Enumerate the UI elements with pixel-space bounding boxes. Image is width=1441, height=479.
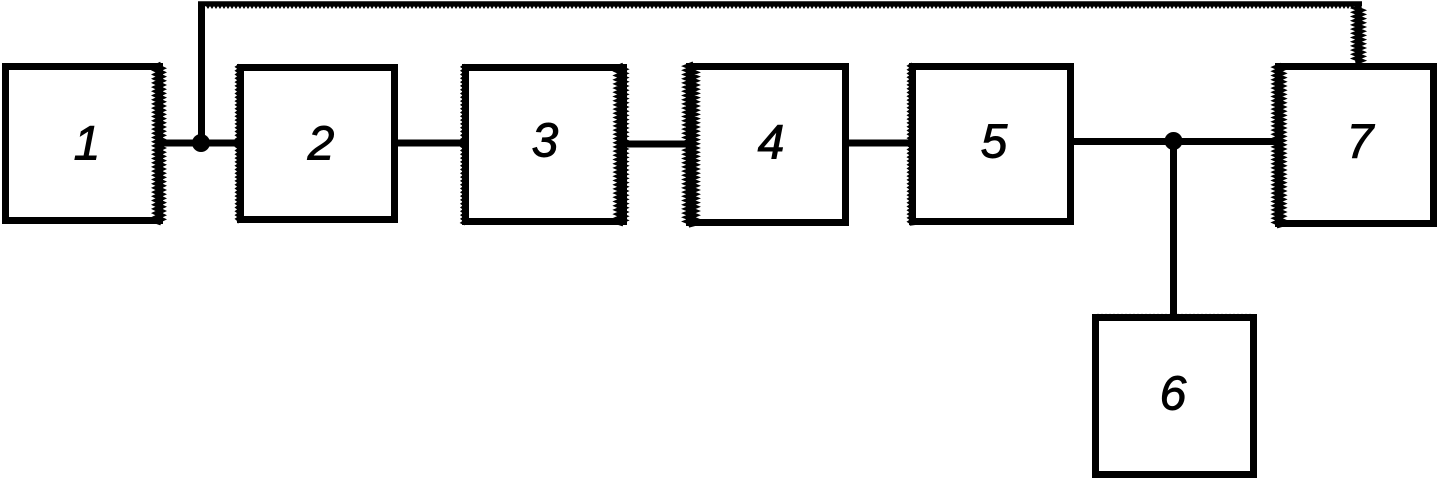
node B junction dot [1165, 132, 1183, 150]
wire: block 5 to node B [1071, 138, 1175, 145]
svg-text:5: 5 [981, 116, 1008, 169]
wire: node A to block 2 input [201, 140, 240, 147]
feedback wire: horizontal across top [198, 1, 1362, 6]
block 7 (box 7) [1277, 65, 1434, 226]
svg-text:6: 6 [1160, 368, 1187, 421]
wire: block 2 to block 3 [395, 140, 465, 147]
wire: block 4 to block 5 [846, 140, 912, 147]
wire: block 1 output to node A [160, 140, 204, 147]
wire: node B to block 7 input [1173, 138, 1278, 145]
svg-text:3: 3 [532, 115, 559, 168]
svg-text:4: 4 [758, 117, 785, 170]
feedback wire: vertical from node A up [198, 4, 205, 143]
block 3 (box 3) [463, 65, 624, 224]
svg-text:2: 2 [307, 118, 335, 171]
wire: node B down to block 6 [1170, 141, 1177, 317]
feedback wire: vertical down into block 7 top [1356, 4, 1362, 66]
block 1 (box 1) [6, 64, 162, 223]
block 6 (box 6) [1096, 314, 1254, 475]
svg-text:7: 7 [1347, 116, 1376, 169]
block 2 (box 2) [237, 65, 394, 222]
block 5 (box 5) [910, 64, 1071, 224]
node A junction dot [192, 134, 210, 152]
svg-text:1: 1 [74, 118, 101, 171]
block 4 (box 4) [688, 64, 845, 225]
wire: block 3 to block 4 [624, 141, 689, 148]
